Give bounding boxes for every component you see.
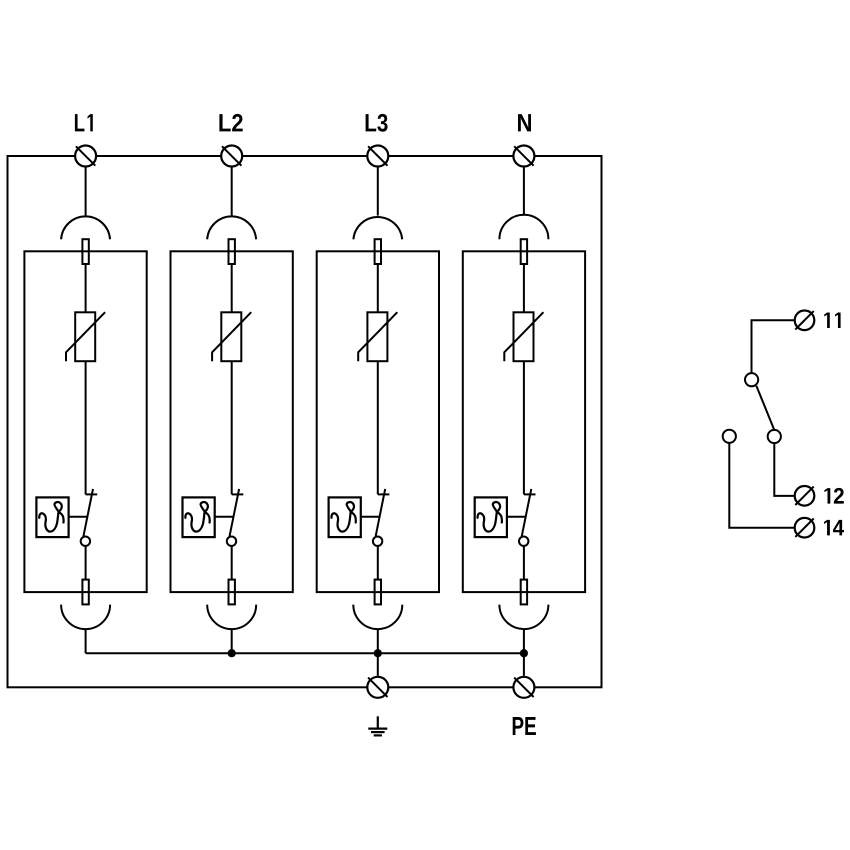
changeover pivot circle A — [745, 373, 758, 386]
moving contact circle (module 2) — [227, 537, 236, 546]
wire plug pin to varistor (module 3) — [377, 264, 379, 312]
wire terminal 11 to pivot A — [752, 320, 796, 373]
plug-in contact arc (module 3 top) — [353, 217, 402, 239]
varistor (module 1) body — [75, 312, 95, 361]
wire bus to PE terminal — [523, 653, 525, 676]
plug pin (module 2 bottom) — [229, 580, 235, 605]
module 3 enclosure — [317, 251, 439, 592]
link thermal box to blade (module 4) — [507, 516, 526, 518]
terminal 12 — [795, 486, 815, 506]
wire plug pin to varistor (module 1) — [85, 264, 87, 312]
PE terminal — [513, 677, 534, 698]
varistor (module 4) diagonal — [504, 312, 543, 361]
moving contact circle (module 3) — [373, 537, 382, 546]
wire varistor to disconnector (module 4) — [523, 361, 525, 494]
wire contact B to terminal 12 — [774, 443, 795, 496]
varistor (module 2) diagonal — [212, 312, 251, 361]
changeover blade — [756, 386, 774, 430]
wire contact to bottom plug pin (module 4) — [523, 546, 525, 580]
thermal disconnector box (module 2) — [183, 497, 215, 537]
label 12 — [824, 488, 843, 504]
wire contact C to terminal 14 — [729, 443, 795, 528]
switch blade (module 3) — [376, 489, 386, 537]
label PE — [513, 717, 536, 735]
plug pin (module 2 top) — [229, 239, 235, 264]
thermal disconnector box (module 4) — [475, 497, 507, 537]
label L3 — [366, 114, 388, 132]
module 2 enclosure — [171, 251, 293, 592]
terminal 11 — [795, 311, 815, 331]
ground symbol — [368, 716, 387, 735]
link thermal box to blade (module 1) — [69, 516, 88, 518]
plug-in contact arc (module 1 top) — [61, 216, 110, 239]
link thermal box to blade (module 3) — [361, 516, 380, 518]
fixed contact tick (module 3) — [378, 493, 390, 495]
wire bus to ground terminal — [377, 653, 379, 676]
contact circle B (12 side) — [768, 430, 781, 443]
switch blade (module 4) — [522, 489, 532, 537]
switch blade (module 1) — [83, 489, 93, 537]
wire plug pin to varistor (module 2) — [231, 264, 233, 312]
junction L2 to bus — [228, 649, 236, 657]
plug pin (module 4 bottom) — [521, 580, 527, 605]
label N — [518, 114, 531, 131]
terminal L3 — [367, 146, 388, 167]
theta symbol (module 2) — [185, 502, 209, 532]
plug pin (module 3 top) — [375, 239, 381, 264]
wire L2 terminal to plug-in contact — [231, 168, 233, 216]
wire N terminal to plug-in contact — [523, 168, 525, 216]
fixed contact tick (module 4) — [524, 493, 536, 495]
plug pin (module 3 bottom) — [375, 580, 381, 605]
terminal L1 — [75, 146, 96, 167]
wire L3 terminal to plug-in contact — [377, 168, 379, 216]
fixed contact tick (module 2) — [232, 493, 244, 495]
terminal 14 — [795, 518, 815, 538]
contact circle C (14 side) — [723, 430, 736, 443]
theta symbol (module 4) — [478, 502, 502, 532]
switch blade (module 2) — [229, 489, 239, 537]
moving contact circle (module 1) — [81, 537, 90, 546]
plug-in contact arc (module 4 bottom) — [499, 605, 548, 630]
label 14 — [824, 520, 844, 536]
junction L3 to bus — [374, 649, 382, 657]
varistor (module 4) body — [514, 312, 534, 361]
terminal L2 — [221, 146, 242, 167]
terminal N — [513, 146, 534, 167]
theta symbol (module 3) — [331, 502, 355, 532]
varistor (module 3) diagonal — [358, 312, 397, 361]
plug-in contact arc (module 2 bottom) — [207, 605, 256, 630]
theta symbol (module 1) — [39, 502, 63, 532]
wire varistor to disconnector (module 3) — [377, 361, 379, 494]
label 11 — [824, 312, 840, 328]
wire bottom contact to PE bus (module 3) — [377, 629, 379, 654]
thermal disconnector box (module 1) — [36, 497, 68, 537]
module 4 enclosure — [463, 251, 585, 592]
thermal disconnector box (module 3) — [329, 497, 361, 537]
plug pin (module 1 top) — [82, 239, 88, 264]
wire varistor to disconnector (module 1) — [85, 361, 87, 494]
plug-in contact arc (module 4 top) — [499, 215, 548, 240]
wire bottom contact to PE bus (module 1) — [85, 629, 87, 654]
moving contact circle (module 4) — [519, 537, 528, 546]
PE bus wire — [86, 652, 524, 654]
outer enclosure box — [8, 156, 602, 687]
wire bottom contact to PE bus (module 4) — [523, 629, 525, 654]
varistor (module 3) body — [367, 312, 387, 361]
link thermal box to blade (module 2) — [215, 516, 234, 518]
wire plug pin to varistor (module 4) — [523, 264, 525, 312]
ground terminal — [367, 677, 388, 698]
wire contact to bottom plug pin (module 2) — [231, 546, 233, 580]
plug-in contact arc (module 3 bottom) — [353, 605, 402, 630]
wire contact to bottom plug pin (module 3) — [377, 546, 379, 580]
module 1 enclosure — [24, 251, 146, 592]
wire bottom contact to PE bus (module 2) — [231, 629, 233, 654]
label L2 — [219, 114, 242, 132]
plug pin (module 4 top) — [521, 239, 527, 264]
wire varistor to disconnector (module 2) — [231, 361, 233, 494]
wire contact to bottom plug pin (module 1) — [85, 546, 87, 580]
fixed contact tick (module 1) — [86, 493, 98, 495]
wire L1 terminal to plug-in contact — [85, 168, 87, 216]
plug pin (module 1 bottom) — [82, 580, 88, 605]
varistor (module 2) body — [221, 312, 241, 361]
label L1 — [75, 114, 93, 131]
plug-in contact arc (module 1 bottom) — [61, 605, 110, 630]
varistor (module 1) diagonal — [66, 312, 105, 361]
junction N to bus — [520, 649, 528, 657]
plug-in contact arc (module 2 top) — [207, 216, 256, 239]
